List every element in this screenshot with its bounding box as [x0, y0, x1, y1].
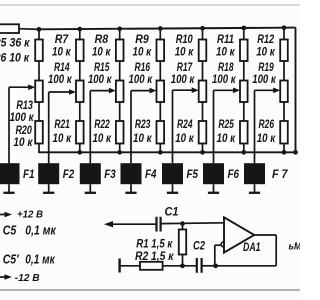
svg-text:100 к: 100 к [252, 72, 276, 86]
svg-text:10 к: 10 к [217, 131, 236, 145]
resistor R7 [76, 40, 84, 62]
+12V supply arrow [0, 214, 6, 216]
svg-text:F4: F4 [145, 167, 157, 181]
svg-text:C1: C1 [165, 205, 179, 219]
svg-text:R25: R25 [218, 117, 234, 131]
node R1 top [180, 221, 185, 226]
svg-text:R2 1,5 к: R2 1,5 к [135, 249, 174, 263]
resistor R26 [280, 121, 288, 144]
resistor R25 [240, 121, 248, 144]
svg-text:100 к: 100 к [88, 72, 112, 86]
filter F5 [162, 163, 183, 184]
wire R10 to R17 [202, 61, 204, 81]
wiper arrow of R17 [173, 89, 194, 91]
resistor R8 [116, 40, 124, 62]
resistor R6 [35, 40, 43, 62]
svg-text:0,1 мк: 0,1 мк [25, 224, 56, 238]
node R23 at lower bus [158, 150, 163, 155]
svg-text:100 к: 100 к [129, 72, 153, 86]
svg-text:10 к: 10 к [256, 45, 275, 59]
wire R25 to lower bus [243, 144, 245, 153]
wire R23 to lower bus [159, 144, 161, 153]
wire R1 to lower node [182, 255, 184, 266]
svg-text:10 к: 10 к [13, 135, 33, 149]
potentiometer R16 [157, 81, 165, 103]
wire bus to R8 [119, 29, 121, 40]
filter F3 [80, 163, 101, 184]
svg-text:R21: R21 [54, 117, 70, 131]
ground [208, 192, 219, 194]
wire C1 to op-amp input [162, 222, 225, 225]
inverting input circle [221, 242, 226, 247]
svg-text:10 к: 10 к [133, 45, 152, 59]
wire R13 to R20 [38, 102, 40, 121]
svg-text:10 к: 10 к [53, 131, 72, 145]
node R26 at lower bus [282, 150, 287, 155]
ground [43, 192, 54, 194]
wire terminal to R2 [120, 265, 140, 267]
wire F3 to ground [89, 184, 91, 193]
resistor R24 [199, 121, 207, 144]
top bus wire [38, 28, 296, 30]
wiper wire down to F2 [48, 92, 50, 163]
svg-text:R5 36 к: R5 36 к [0, 35, 30, 49]
resistor R21 [76, 121, 84, 144]
wire bus to R7 [79, 29, 81, 39]
wire C2 to feedback node [203, 265, 216, 267]
resistor R1 [179, 230, 186, 255]
wiper arrow of R14 [49, 91, 71, 93]
svg-text:R26: R26 [259, 117, 275, 131]
svg-text:F1: F1 [23, 167, 35, 181]
node R10 top (bus junction) [200, 26, 205, 31]
wire R5 to bus [19, 28, 40, 31]
svg-text:R23: R23 [135, 117, 151, 131]
wire R20 to lower bus [38, 144, 40, 153]
wire bus to R10 [202, 28, 204, 39]
svg-text:F2: F2 [63, 167, 75, 181]
resistor R22 [116, 121, 124, 144]
node R9 top (bus junction) [158, 26, 163, 31]
node R24 at lower bus [200, 150, 205, 155]
wire R15 to R22 [119, 102, 121, 121]
wire node to R1 [182, 224, 184, 230]
wiper arrow of R18 [214, 89, 235, 91]
wire F6 to ground [213, 184, 215, 193]
svg-text:F6: F6 [228, 167, 240, 181]
wire R9 to R16 [159, 61, 161, 81]
svg-text:R6 10 к: R6 10 к [0, 51, 30, 65]
svg-text:F 7: F 7 [272, 167, 289, 181]
node R7 top (bus junction) [77, 27, 82, 32]
top page rule [0, 4, 300, 6]
resistor R5 (horizontal, clipped at left edge) [0, 24, 19, 33]
wire R7 to R14 [79, 61, 81, 81]
capacitor C2 [196, 258, 198, 273]
wire bus to R6 [38, 29, 40, 39]
filter F1 [0, 163, 20, 184]
ground [167, 192, 178, 194]
node feedback/input junction [213, 263, 218, 268]
resistor R20 [35, 121, 43, 144]
wire R16 to R23 [159, 102, 161, 121]
wire R2 to C2 [163, 265, 196, 267]
wiper arrow of R16 [131, 90, 151, 92]
wire R18 to R25 [243, 102, 245, 121]
wire R12 to R19 [283, 61, 285, 81]
wire F4 to ground [130, 184, 132, 193]
resistor R9 [157, 40, 165, 62]
wire R19 to R26 [283, 102, 285, 121]
wire to inverting input [214, 245, 216, 266]
resistor R10 [199, 40, 207, 62]
filter F2 [38, 163, 59, 184]
resistor R11 [240, 40, 248, 62]
svg-text:100 к: 100 к [48, 72, 72, 86]
wiper wire down to F6 [213, 90, 215, 163]
potentiometer R19 [280, 81, 288, 103]
svg-text:10 к: 10 к [175, 45, 194, 59]
potentiometer R18 [240, 81, 248, 103]
svg-text:R24: R24 [177, 117, 193, 131]
svg-text:0,1 мк: 0,1 мк [25, 253, 55, 267]
lower feedback bus wire [38, 151, 295, 153]
svg-text:C2: C2 [193, 239, 205, 253]
node R21 at lower bus [77, 150, 82, 155]
svg-text:F3: F3 [104, 167, 116, 181]
wiper arrow of R19 [255, 89, 275, 91]
wire F7 to ground [254, 184, 256, 193]
svg-text:R22: R22 [94, 117, 110, 131]
filter F7 [244, 163, 265, 184]
svg-text:-12 В: -12 В [15, 273, 40, 284]
wiper wire down to F3 [89, 91, 91, 164]
node at lower bus right corner [293, 150, 298, 155]
wire R26 to lower bus [283, 144, 285, 153]
node R12 top (bus junction) [282, 25, 287, 30]
svg-text:100 к: 100 к [10, 110, 35, 124]
op-amp DA1 [224, 217, 254, 252]
wire R8 to R15 [119, 61, 121, 81]
ground [3, 192, 14, 194]
svg-text:10 к: 10 к [257, 131, 276, 145]
svg-text:DA1: DA1 [243, 240, 261, 254]
potentiometer R13 [35, 81, 43, 103]
-12V supply arrow [0, 276, 6, 278]
svg-text:10 к: 10 к [216, 45, 235, 59]
filter F4 [121, 163, 142, 184]
ground [249, 192, 260, 194]
bottom page rule [0, 289, 300, 291]
wiper wire down to F1 [8, 87, 10, 163]
wire bus to R9 [159, 29, 161, 40]
wire R11 to R18 [243, 61, 245, 81]
svg-text:100 к: 100 к [212, 72, 236, 86]
potentiometer R15 [116, 81, 124, 103]
wire F2 to ground [48, 184, 50, 193]
wiper wire down to F5 [172, 90, 174, 163]
wire bus to R12 [283, 28, 285, 40]
right edge wire (bus down) [295, 28, 297, 153]
potentiometer R17 [199, 81, 207, 103]
node R11 top (bus junction) [241, 26, 246, 31]
feedback wire (output loop) [254, 234, 276, 236]
wire R17 to R24 [202, 102, 204, 121]
resistor R12 [280, 40, 288, 62]
input terminal bar [118, 259, 120, 273]
svg-text:100 к: 100 к [171, 72, 195, 86]
svg-text:C5: C5 [3, 224, 17, 238]
capacitor C1 [155, 217, 157, 232]
node R1 bottom [180, 263, 185, 268]
filter F6 [203, 163, 224, 184]
svg-text:C5′: C5′ [3, 253, 20, 267]
ground [85, 192, 96, 194]
wire R14 to R21 [79, 102, 81, 121]
resistor R2 [140, 262, 163, 270]
node R6 top (bus junction) [37, 27, 42, 32]
resistor R23 [157, 121, 165, 144]
svg-text:10 к: 10 к [92, 131, 111, 145]
svg-text:10 к: 10 к [133, 131, 152, 145]
wire R22 to lower bus [119, 144, 121, 153]
wire F5 to ground [172, 184, 174, 193]
svg-text:F5: F5 [187, 167, 199, 181]
svg-text:+12 В: +12 В [17, 210, 43, 221]
ground [125, 192, 136, 194]
wire R21 to lower bus [79, 144, 81, 153]
wire F1 to ground [8, 184, 10, 193]
svg-text:10 к: 10 к [92, 45, 111, 59]
wiper wire down to F7 [254, 90, 256, 163]
svg-text:ьМ: ьМ [289, 240, 301, 252]
node R8 top (bus junction) [117, 26, 122, 31]
input arrow (to preamp) [104, 221, 113, 227]
potentiometer R14 [76, 81, 84, 103]
svg-text:10 к: 10 к [52, 45, 71, 59]
wiper arrow of R13 [9, 86, 30, 88]
node R22 at lower bus [117, 150, 122, 155]
node R25 at lower bus [241, 150, 246, 155]
wiper wire down to F4 [130, 91, 132, 164]
wire R6 to R13 [38, 61, 40, 81]
wire bus to R11 [243, 28, 245, 40]
svg-text:10 к: 10 к [175, 131, 194, 145]
wire R24 to lower bus [202, 144, 204, 153]
wiper arrow of R15 [90, 90, 110, 92]
